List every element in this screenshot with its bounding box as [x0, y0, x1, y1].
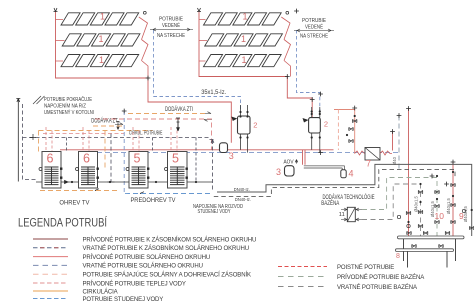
tank drop T2 — [83, 127, 89, 152]
component 11 body — [347, 207, 355, 221]
circulation orange dashed under tanks — [40, 190, 120, 192]
right side return field A — [139, 17, 148, 78]
svg-text:VRATNÉ POTRUBIE K ZÁSOBNÍKOM S: VRATNÉ POTRUBIE K ZÁSOBNÍKOM SOLÁRNEHO O… — [83, 245, 250, 252]
collector field A row 3 — [61, 55, 139, 67]
black distributor arrow mid — [176, 118, 180, 131]
valve chain above exchanger — [353, 119, 357, 122]
svg-text:POTRUBIE SPÁJAJÚCE SOLÁRNY A D: POTRUBIE SPÁJAJÚCE SOLÁRNY A DOHRIEVACÍ … — [83, 272, 251, 279]
circulation orange lower dashed — [39, 131, 153, 171]
tank bottom link pipe black — [36, 181, 213, 183]
teal dashed riser — [398, 116, 400, 170]
collector field B row 1 — [204, 13, 282, 25]
legend row 6 line — [33, 282, 68, 284]
pump 2a valve dots — [239, 111, 241, 113]
svg-text:DODÁVKA ZTI: DODÁVKA ZTI — [165, 106, 193, 113]
junction cross right riser — [294, 9, 299, 14]
tank T1 body — [39, 152, 62, 189]
svg-text:6: 6 — [83, 152, 90, 166]
junction cross pump 2b feed — [310, 97, 315, 102]
svg-text:6: 6 — [47, 152, 54, 166]
arrow node top of field B — [197, 8, 201, 12]
svg-text:DODÁVKA ZT: DODÁVKA ZT — [91, 117, 118, 124]
arrow node top of field A — [54, 8, 58, 12]
legend row 5 line — [33, 273, 68, 275]
pump group 2b stubs — [312, 107, 320, 153]
svg-text:PRÍVODNÉ POTRUBIE SOLÁRNEHO OK: PRÍVODNÉ POTRUBIE SOLÁRNEHO OKRUHU — [83, 254, 211, 261]
svg-text:Ø40x1,5: Ø40x1,5 — [463, 205, 468, 222]
pump group 2a body — [238, 116, 251, 134]
dashed riser to vessel 3a — [210, 140, 216, 193]
svg-text:POTRUBIE: POTRUBIE — [159, 17, 183, 23]
legend row 8 line — [33, 298, 68, 300]
vent circle field B — [286, 11, 289, 14]
exchanger body — [365, 148, 380, 161]
svg-text:PREDOHREV TV: PREDOHREV TV — [131, 197, 177, 204]
junction cross riser bottom — [318, 92, 323, 97]
blue dashed cold water drop — [123, 111, 125, 194]
gray feed pipe to vessel 4 — [304, 166, 345, 170]
flow arrows under tanks — [65, 180, 146, 193]
svg-text:VRATNÉ POTRUBIE SOLÁRNEHO OKRU: VRATNÉ POTRUBIE SOLÁRNEHO OKRUHU — [83, 263, 203, 270]
bench lower legs — [408, 251, 448, 267]
junction cross array A corner — [146, 76, 151, 81]
legend row 3 line — [33, 256, 68, 258]
valve fittings right column 1 — [418, 190, 422, 193]
svg-text:5: 5 — [172, 152, 179, 166]
svg-text:UMESTNENÝ V KOTOLNI: UMESTNENÝ V KOTOLNI — [44, 109, 94, 116]
collector field B row 2 — [205, 34, 283, 46]
svg-text:AOV: AOV — [284, 160, 294, 166]
expansion vessel 3a — [220, 143, 228, 153]
red riser right of exchanger — [392, 132, 394, 151]
svg-text:DN40-Iz.: DN40-Iz. — [234, 187, 250, 193]
svg-text:3: 3 — [229, 151, 234, 161]
pump 2b valve dots — [311, 110, 313, 112]
legend row 7 line — [33, 290, 68, 292]
svg-text:Ø40: Ø40 — [392, 156, 397, 165]
pump group 2a stubs — [241, 105, 248, 153]
svg-text:DODÁVKA TECHNOLÓGIE: DODÁVKA TECHNOLÓGIE — [323, 194, 375, 201]
row feeders field B — [199, 20, 207, 62]
exchanger zigzag right — [380, 151, 392, 155]
svg-text:7: 7 — [366, 159, 371, 169]
svg-text:POTRUBIE: POTRUBIE — [302, 18, 326, 24]
dark dashed branch to tanks — [23, 137, 210, 139]
hot water dashed red upper — [95, 119, 212, 150]
salmon link to exchanger — [334, 110, 355, 154]
collector field A row 1 — [61, 13, 139, 25]
svg-text:VEDENÉ: VEDENÉ — [162, 22, 180, 29]
svg-text:1: 1 — [99, 55, 104, 65]
vessel 4 — [341, 170, 346, 178]
svg-text:STUDENEJ VODY: STUDENEJ VODY — [198, 209, 231, 215]
tank drop T1 — [46, 127, 52, 152]
legend right row 1 line — [278, 266, 327, 268]
svg-text:11: 11 — [339, 212, 345, 218]
svg-text:4: 4 — [349, 169, 354, 179]
gray dashed pool supply path — [362, 178, 437, 237]
legend row 2 line — [33, 247, 68, 249]
svg-text:2: 2 — [253, 121, 257, 130]
vent circle field A — [143, 11, 146, 14]
right side return field B — [281, 17, 290, 77]
svg-text:NA STRECHE: NA STRECHE — [300, 34, 328, 40]
svg-text:Ø40x1,5: Ø40x1,5 — [446, 197, 451, 214]
collector field B row 3 — [204, 55, 282, 67]
exchanger zigzag left — [355, 151, 365, 155]
red supply pipe field A — [56, 12, 232, 143]
component 11 arrows — [341, 208, 362, 221]
svg-text:VEDENÉ: VEDENÉ — [305, 24, 323, 31]
orange dashed short dodavka2 — [93, 125, 122, 127]
red supply bus — [60, 149, 334, 151]
tank T4 body — [165, 152, 188, 189]
circulation dashed orange upper — [128, 113, 206, 115]
roof riser link dashed — [154, 97, 241, 113]
svg-text:2: 2 — [324, 120, 328, 129]
roof pipe marker right: dashed riser — [297, 30, 320, 112]
dark dashed vertical between tanks — [110, 134, 112, 182]
tank drop T4 — [171, 127, 177, 152]
bench top valves — [407, 231, 411, 234]
svg-text:PRÍVODNÉ POTRUBIE BAZÉNA: PRÍVODNÉ POTRUBIE BAZÉNA — [337, 274, 425, 281]
legend row 4 line — [33, 264, 68, 266]
row feeders field A — [56, 20, 65, 62]
roof pipe marker left: dashed riser — [153, 30, 155, 97]
svg-text:NA STRECHE: NA STRECHE — [157, 33, 185, 39]
roof note right dimension line — [294, 29, 334, 32]
svg-text:POTRUBIE STUDENEJ VODY: POTRUBIE STUDENEJ VODY — [83, 297, 164, 303]
svg-text:PRÍVODNÉ POTRUBIE K ZÁSOBNÍKOM: PRÍVODNÉ POTRUBIE K ZÁSOBNÍKOM SOLÁRNEHO… — [83, 236, 257, 243]
red dashed tank header — [43, 133, 124, 135]
salmon dashed drop — [337, 110, 339, 151]
dark dashed drop right of T4 — [195, 138, 197, 183]
bench top bar — [398, 236, 465, 239]
svg-text:8: 8 — [396, 253, 400, 260]
bench top legs — [404, 239, 456, 261]
collector field A row 2 — [62, 34, 140, 46]
svg-text:1: 1 — [243, 12, 248, 22]
extra valve marks right column — [406, 211, 410, 214]
red riser 2 — [452, 162, 454, 236]
svg-text:LEGENDA POTRUBÍ: LEGENDA POTRUBÍ — [18, 217, 108, 230]
junction dots tank pipe — [71, 181, 73, 183]
svg-text:POISTNÉ POTRUBIE: POISTNÉ POTRUBIE — [337, 264, 394, 271]
tank T3 body — [126, 152, 149, 189]
red double drop to AOV pipe — [303, 150, 306, 165]
red long riser — [408, 109, 410, 237]
svg-text:9: 9 — [459, 211, 464, 221]
svg-text:OHREV TV: OHREV TV — [59, 200, 90, 207]
svg-text:NAPOJENÍM NA R/Z: NAPOJENÍM NA R/Z — [44, 103, 86, 110]
main dark pipe run solid — [217, 164, 472, 236]
svg-text:BAZÉNA: BAZÉNA — [321, 200, 339, 207]
dodavka ZT arrows 2 — [203, 112, 212, 122]
svg-text:1: 1 — [100, 12, 105, 22]
main dark pipe run dashed — [214, 170, 455, 197]
svg-text:DN40-Iz.: DN40-Iz. — [235, 197, 251, 203]
roof note left dimension line — [150, 28, 193, 31]
svg-text:Ø40x1,5: Ø40x1,5 — [414, 195, 419, 212]
gray dashed pool return path — [362, 184, 421, 236]
bench lower bar — [396, 249, 454, 252]
dark dashed drop T2 left — [66, 138, 68, 152]
dark dashed drop T4 left — [152, 138, 154, 152]
red supply pipe field B — [199, 12, 312, 118]
svg-text:CIRKUL. POTRUBIE: CIRKUL. POTRUBIE — [129, 131, 163, 137]
svg-text:3: 3 — [276, 167, 281, 177]
svg-text:1: 1 — [242, 55, 247, 65]
black riser left with arrow — [16, 99, 20, 182]
cold water blue dashed under tanks — [125, 193, 213, 195]
junction cross exchanger riser — [352, 106, 357, 111]
svg-text:CIRKULÁCIA: CIRKULÁCIA — [83, 288, 119, 295]
svg-text:PRÍVODNÉ POTRUBIE TEPLEJ VODY: PRÍVODNÉ POTRUBIE TEPLEJ VODY — [83, 280, 186, 287]
svg-text:1: 1 — [99, 34, 104, 44]
AOV vessel 3b — [285, 166, 295, 176]
svg-text:10: 10 — [435, 211, 445, 221]
legend row 1 line — [33, 238, 68, 240]
pump 2b inlet arrow — [303, 118, 309, 123]
pump group 2b body — [309, 118, 321, 133]
dark dashed return riser left — [23, 104, 37, 180]
blue dashed connecting bus — [97, 152, 399, 154]
svg-text:5: 5 — [134, 152, 141, 166]
svg-text:35x1,5-Iz.: 35x1,5-Iz. — [201, 90, 226, 96]
svg-text:POTRUBIE POKRAČUJE: POTRUBIE POKRAČUJE — [44, 96, 92, 103]
tank T2 body — [76, 152, 99, 189]
svg-text:1: 1 — [241, 34, 246, 44]
dodavka ZT arrows 1 — [115, 123, 123, 125]
pump 2a inlet arrow — [231, 117, 237, 122]
legend right row 3 line — [278, 286, 327, 288]
tank drop T3 — [133, 127, 139, 152]
svg-text:VRATNÉ POTRUBIE BAZÉNA: VRATNÉ POTRUBIE BAZÉNA — [337, 284, 418, 291]
junction tee on dashed branch — [30, 134, 36, 140]
note leader slashes — [33, 96, 45, 104]
legend right row 2 line — [278, 276, 327, 278]
